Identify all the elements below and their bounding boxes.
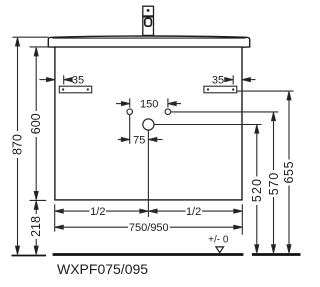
faucet aerator dot [147,9,150,12]
ext right from bracket (655) [237,90,294,92]
dim 520 [255,125,259,253]
svg-text:750/950: 750/950 [129,222,169,234]
svg-text:1/2: 1/2 [90,206,105,218]
svg-text:655: 655 [282,161,296,184]
left bracket [59,86,91,93]
dim 655 [287,92,291,253]
tick below cabinet left [54,204,56,231]
faucet band [143,15,154,17]
basin front lip line [53,37,246,39]
basin slab [48,36,249,48]
svg-text:75: 75 [133,135,145,147]
floor line left [12,255,47,257]
dim 1/2 right [149,209,242,213]
svg-text:WXPF075/095: WXPF075/095 [57,261,148,277]
floor line main [53,253,244,256]
floor line right [252,253,301,256]
cabinet [55,47,242,200]
ext right from right hole (570) [171,111,279,113]
svg-text:870: 870 [11,134,25,155]
tick below cabinet right [241,204,243,235]
dim 570 [272,113,276,253]
svg-text:520: 520 [250,178,264,202]
hole left [127,109,133,115]
faucet body [143,6,154,35]
dim 35 left [39,75,72,84]
ext right from big hole (520) [154,124,261,126]
hole right [165,109,171,115]
hole center big [143,119,154,130]
dim 150 [116,98,181,107]
svg-text:35: 35 [72,75,84,87]
extension line 600 (slab bottom, left) [30,46,49,48]
svg-text:+/- 0: +/- 0 [208,234,229,245]
svg-text:218: 218 [29,216,43,237]
dim 218 [34,201,38,254]
svg-text:570: 570 [267,172,281,195]
dim 1/2 left [55,209,148,213]
extension line 870 (basin top, left) [12,36,48,38]
svg-text:150: 150 [140,99,158,111]
dim 75 [118,138,163,142]
right bracket [204,86,237,93]
center line [147,130,149,217]
ext down from left hole [129,115,131,144]
faucet handle [145,18,152,26]
svg-text:600: 600 [29,113,43,134]
dim 870 [16,38,20,254]
svg-text:1/2: 1/2 [186,206,201,218]
dim 35 right [225,75,256,84]
datum triangle [216,247,224,253]
dim 600 [30,48,47,201]
dim 750/950 [55,225,242,229]
svg-text:35: 35 [212,75,224,87]
